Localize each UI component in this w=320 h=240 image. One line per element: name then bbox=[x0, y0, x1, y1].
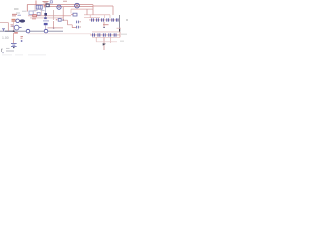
lamp bubble 1 bbox=[16, 19, 20, 23]
source X1 orange bars bbox=[12, 19, 16, 21]
bus dark segment bbox=[5, 30, 15, 32]
wire corner dash right bbox=[117, 27, 122, 29]
node dot blue right of battery bbox=[21, 40, 23, 42]
wire ladder bottom rail bbox=[96, 41, 117, 43]
component box at 37-40 y12-15 bbox=[37, 12, 40, 15]
wire ladder drop x104 bbox=[103, 22, 105, 27]
label 1k blue bbox=[43, 20, 49, 22]
battery B1 bbox=[11, 44, 17, 48]
label red small x11 bbox=[11, 25, 14, 26]
bottom ladder component 2 bbox=[98, 33, 100, 36]
wire faint y17.5 bbox=[84, 17, 100, 19]
wire ladder drop b bbox=[103, 37, 105, 50]
bottom ladder component 5 bbox=[114, 33, 116, 36]
voltmeter M1 bbox=[26, 29, 30, 33]
wire vertical x53 bbox=[53, 10, 55, 20]
wire bottom ladder top line bbox=[92, 31, 120, 33]
label red text x63 bbox=[63, 0, 67, 2]
wire right corner vertical bbox=[112, 6, 114, 15]
faint gray mark far right a bbox=[121, 33, 127, 35]
transistor Q1 circle bbox=[75, 3, 80, 8]
status dash row bbox=[2, 54, 46, 56]
wire ladder drop a bbox=[95, 37, 97, 41]
junction tick x104 bbox=[103, 26, 105, 28]
wire left corner vertical bbox=[26, 5, 28, 12]
capacitor C2 solid bbox=[44, 23, 48, 25]
label dot blue top bbox=[50, 1, 52, 3]
top ladder component 1 bbox=[92, 18, 94, 21]
wire right loop vertical bbox=[92, 5, 94, 15]
wire horizontal y17.9 bbox=[30, 17, 63, 19]
label red under ladder bbox=[103, 24, 109, 26]
label text red top bbox=[43, 1, 49, 3]
label smudge gray bbox=[16, 12, 20, 14]
top ladder component 3 bbox=[102, 18, 104, 21]
voltmeter M2 bbox=[44, 29, 48, 33]
wire second top horizontal bbox=[49, 6, 93, 8]
wire vertical x104 upper faint bbox=[104, 15, 106, 18]
top ladder component 4 bbox=[107, 18, 109, 21]
wire vertical x41.5 faint bbox=[41, 9, 43, 15]
wire vertical x13 source drop bbox=[13, 33, 15, 43]
bottom ladder component 4 bbox=[109, 33, 111, 36]
op-amp U3 bubble bbox=[11, 25, 21, 30]
label text under K1 bbox=[34, 9, 45, 11]
wire ladder right edge bbox=[119, 32, 121, 37]
wire vertical x35 faint bbox=[34, 5, 36, 12]
wire vertical x13.6 mid bbox=[13, 22, 15, 31]
wire ladder drop c bbox=[110, 37, 112, 43]
wire vertical x90 short bbox=[89, 15, 91, 18]
resistor R3 on mid wire bbox=[33, 15, 37, 17]
wire vertical x8 bbox=[7, 23, 9, 32]
wire mid horizontal right bbox=[84, 14, 110, 16]
wire top right horizontal bbox=[93, 5, 113, 7]
wire vertical x71 bbox=[70, 9, 72, 13]
junction dot x63 bbox=[62, 19, 64, 21]
label blue text V1 bbox=[18, 14, 22, 16]
component at x59 bbox=[56, 19, 61, 22]
ground symbol bbox=[103, 43, 106, 45]
junction dot on bus bbox=[13, 30, 15, 32]
wire vertical x45 bbox=[45, 7, 47, 13]
wire vertical x110 upper faint bbox=[109, 15, 111, 18]
status text line bbox=[6, 47, 10, 49]
resistor R2 red marks bbox=[44, 6, 46, 7]
top ladder component 2 bbox=[97, 18, 99, 21]
label red text under R3 bbox=[32, 18, 36, 20]
resistor R4 red on bus bbox=[14, 32, 18, 34]
top ladder component 5 bbox=[112, 18, 114, 21]
relay K3 box bbox=[29, 11, 33, 15]
gray dot right side bbox=[126, 19, 128, 21]
bottom ladder component 3 bbox=[103, 33, 105, 36]
component pair right upper bbox=[77, 21, 81, 24]
connector marks far left bbox=[2, 29, 5, 31]
wire right vertical dark bbox=[119, 15, 121, 31]
wire faint y33.8 bbox=[28, 33, 91, 35]
wire vertical x87 bbox=[86, 9, 88, 15]
wire mid horizontal left bbox=[28, 15, 71, 17]
svg-text:1.00: 1.00 bbox=[2, 36, 9, 40]
faint gray mark far right b bbox=[120, 40, 124, 42]
wire C2 to meter vertical bbox=[44, 25, 46, 29]
label red text V1 bbox=[12, 14, 17, 16]
wire horizontal y22.6 left edge bbox=[0, 22, 8, 24]
status text lower bbox=[6, 50, 14, 52]
bus wire left bbox=[0, 30, 63, 32]
component pair right lower bbox=[77, 26, 81, 29]
wire vertical x63 bbox=[62, 7, 64, 20]
wire bottom ladder lower line bbox=[92, 36, 120, 38]
connector J1 box bbox=[36, 5, 42, 9]
node dot below battery bbox=[13, 47, 14, 48]
status dot blue bbox=[2, 52, 3, 53]
wire horizontal y27.8 bbox=[48, 27, 64, 29]
wire vertical x53 low bbox=[53, 21, 55, 28]
label red marks right of battery bbox=[21, 37, 24, 39]
wire main top horizontal bbox=[27, 4, 93, 6]
bottom ladder component 1 bbox=[93, 33, 95, 36]
node stub red bbox=[35, 1, 37, 5]
diode D2 blob bbox=[44, 17, 47, 19]
dark tick right edge bbox=[119, 29, 121, 32]
op-amp U2 bubble bbox=[57, 5, 61, 9]
wire bottom ladder through line bbox=[90, 34, 120, 36]
component D1 dark blob bbox=[44, 13, 47, 16]
bracket mark bottom left bbox=[1, 49, 2, 52]
wire top ladder through line bbox=[89, 19, 119, 21]
wire jog x67 bbox=[63, 20, 76, 27]
wire vertical x45 lower bbox=[45, 16, 47, 18]
top ladder component 6 bbox=[116, 18, 118, 21]
label gray dash upper left bbox=[14, 8, 19, 10]
wire horizontal y9 bbox=[71, 8, 93, 10]
junction dot x53 bbox=[53, 27, 55, 29]
label tiny text x22 bbox=[22, 10, 27, 12]
relay box dark bbox=[46, 4, 49, 7]
capacitor C4 bbox=[71, 13, 77, 16]
dark ellipse component bbox=[20, 19, 26, 22]
